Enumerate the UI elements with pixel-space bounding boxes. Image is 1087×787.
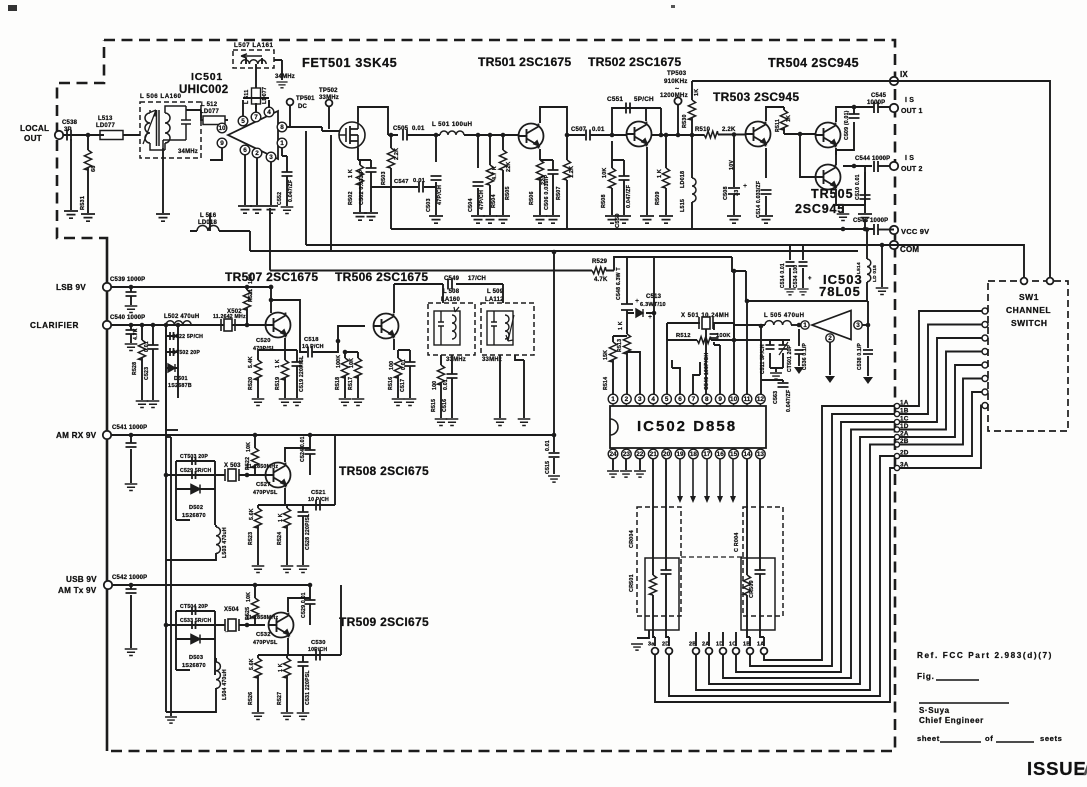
resistor R520 5.4K <box>254 360 261 380</box>
svg-text:C532: C532 <box>256 632 271 638</box>
capacitor C539 1000P <box>126 292 137 296</box>
wire C546 top <box>713 323 715 330</box>
terminal 2B <box>693 648 700 655</box>
op-amp IC501 triangle <box>228 111 278 159</box>
svg-text:C510 0.01: C510 0.01 <box>855 174 861 200</box>
wire C506 branch <box>540 160 553 215</box>
ground pin2 <box>250 206 264 213</box>
ground IC503 pin2 arrow <box>825 376 835 383</box>
svg-text:1K: 1K <box>694 89 700 96</box>
svg-text:33MHz: 33MHz <box>319 95 339 101</box>
ground C539 <box>125 306 138 312</box>
inductor L502 470uH <box>166 321 191 325</box>
svg-text:R504: R504 <box>491 194 497 208</box>
svg-text:CLARIFIER: CLARIFIER <box>30 321 79 330</box>
wire R522 leads <box>254 435 256 475</box>
resistor R530 1K <box>688 100 695 120</box>
svg-text:of: of <box>985 734 993 743</box>
wire pin20 down <box>665 459 667 507</box>
svg-text:17: 17 <box>703 451 711 458</box>
terminal 2D <box>666 648 673 655</box>
transformer L506 LA160 box <box>140 102 201 158</box>
transistor TR502 2SC1675 <box>627 122 652 147</box>
wire L514 top <box>866 230 868 260</box>
ground C508 <box>727 216 741 223</box>
ground R505 <box>496 216 510 223</box>
svg-text:4.7 K: 4.7 K <box>492 166 498 180</box>
wire R524 leads <box>286 505 288 565</box>
wire vertical bus x554 <box>553 252 555 435</box>
wire C529b leads <box>309 585 311 625</box>
transistor TR501 2SC1675 <box>519 124 544 149</box>
wire R530 leads <box>691 81 693 135</box>
svg-text:R519: R519 <box>275 377 281 390</box>
wire C536 leads <box>798 329 800 366</box>
trimmer CT503 20P <box>192 457 196 465</box>
ground R504 <box>483 216 497 223</box>
svg-text:C519 220P/SL: C519 220P/SL <box>299 355 305 392</box>
terminal VCC 9V <box>890 226 898 234</box>
svg-text:+: + <box>635 298 639 305</box>
ground C550 <box>617 216 631 223</box>
svg-text:0.01: 0.01 <box>545 440 551 451</box>
terminal LSB 9V <box>103 283 111 291</box>
ground TR502 emitter <box>640 216 654 223</box>
junction <box>245 285 250 290</box>
relay CR501 box <box>637 507 681 616</box>
svg-text:C544 1000P: C544 1000P <box>855 156 890 162</box>
wire CT503 frame <box>166 461 219 489</box>
wire pin 22 stub <box>639 448 641 449</box>
crystal X501 10.24MH <box>699 317 713 329</box>
transistor TR506 2SC1675 <box>374 314 399 339</box>
svg-text:C506 0.039/P: C506 0.039/P <box>544 174 550 210</box>
svg-text:LD018: LD018 <box>680 171 686 188</box>
capacitor C510 0.01 <box>860 195 871 199</box>
wire join2 <box>166 436 171 438</box>
svg-text:LD077: LD077 <box>200 109 219 115</box>
inductor L501 100uH <box>440 131 464 135</box>
wire TR507 emitter network <box>258 338 297 398</box>
capacitor C515 0.01 <box>549 453 560 457</box>
wire R509 leads <box>665 135 667 215</box>
ground C538 <box>64 211 78 218</box>
wire COM rail from gate column <box>306 131 890 245</box>
svg-text:10V: 10V <box>729 160 735 170</box>
wire C505 to L501 <box>407 134 436 136</box>
junction <box>759 324 764 329</box>
svg-text:OUT 2: OUT 2 <box>901 166 923 173</box>
svg-text:C563: C563 <box>773 391 779 404</box>
resistor in CR501 <box>649 575 656 595</box>
ground COM <box>876 288 889 294</box>
CR501 inner box <box>645 558 679 630</box>
svg-text:C509 (0.01): C509 (0.01) <box>844 110 850 140</box>
svg-text:23: 23 <box>623 451 631 458</box>
switch contact 2A <box>982 362 988 368</box>
capacitor C538 0.1/P out <box>863 350 873 354</box>
svg-text:R509: R509 <box>655 191 661 205</box>
ground C516 <box>446 419 459 425</box>
IC502 pin 14 <box>742 449 752 459</box>
junction <box>164 473 169 478</box>
wires CR004 to terminals <box>747 630 764 646</box>
capacitor C505 0.01 <box>403 130 407 141</box>
inductor L509 LA112 box <box>481 303 534 355</box>
junction <box>129 285 134 290</box>
capacitor C541 1000P <box>126 443 137 447</box>
junction <box>269 285 274 290</box>
inductor L503 470uH <box>216 527 220 553</box>
wire pin 6 stub <box>679 404 681 406</box>
svg-text:3: 3 <box>638 396 642 403</box>
resistor R508 10K <box>608 168 615 188</box>
ground pin22 <box>634 471 646 477</box>
wire gate feed <box>322 127 339 131</box>
junction <box>866 323 871 328</box>
svg-text:15: 15 <box>730 451 738 458</box>
transistor TR505 2SC945 <box>816 165 841 190</box>
resistor R528 4.7K <box>138 340 145 360</box>
svg-text:9: 9 <box>718 396 722 403</box>
wire to C507 <box>567 134 585 136</box>
svg-text:C514 0.033/ZF: C514 0.033/ZF <box>756 181 762 218</box>
wire TR508 collector <box>285 448 310 462</box>
diode D501 1S2687B <box>168 364 175 372</box>
wire L512 to IC501 <box>225 119 228 121</box>
wire pin9 riser <box>714 342 720 394</box>
ground C514b <box>784 289 795 295</box>
svg-text:C521: C521 <box>311 490 326 496</box>
svg-text:7: 7 <box>692 396 696 403</box>
svg-text:10 P/CH: 10 P/CH <box>302 344 324 350</box>
wire TR505 emitter gnd <box>842 205 844 213</box>
svg-text:6: 6 <box>243 147 247 154</box>
junction <box>565 133 570 138</box>
inductor L507 LA161 box <box>233 50 274 68</box>
wire R518 leads <box>344 352 346 398</box>
svg-text:0.01: 0.01 <box>592 127 605 133</box>
wire pin 10 stub <box>733 404 735 406</box>
svg-text:0.01: 0.01 <box>443 379 449 390</box>
signature rule <box>919 702 1009 704</box>
wire C547 link <box>371 186 436 188</box>
svg-text:C504: C504 <box>468 198 474 212</box>
svg-text:C518: C518 <box>304 337 319 343</box>
svg-text:IC502 D858: IC502 D858 <box>637 418 737 435</box>
junction <box>488 133 493 138</box>
junction <box>690 133 695 138</box>
resistor R515 100 <box>437 365 444 385</box>
wire TR504 collector to out <box>836 107 872 122</box>
capacitor C521 10P/CH <box>316 500 320 511</box>
svg-text:14: 14 <box>743 451 751 458</box>
resistor R503 2.2K <box>387 148 394 168</box>
crystal X502 11.2642MHz <box>221 319 235 331</box>
svg-text:L502 470uH: L502 470uH <box>164 314 199 320</box>
wire pin3 to out column <box>862 324 868 326</box>
svg-text:TR508 2SCI675: TR508 2SCI675 <box>339 464 429 478</box>
wire pin9 <box>210 148 222 160</box>
svg-text:C529 0.01: C529 0.01 <box>301 592 307 618</box>
wire pin 5 stub <box>666 404 668 406</box>
resistor R511 1K <box>780 110 787 130</box>
wire CT501 cluster <box>770 340 783 372</box>
svg-text:C547: C547 <box>394 179 409 185</box>
svg-text:12: 12 <box>757 396 765 403</box>
inductor L507 winding <box>241 60 266 64</box>
svg-text:TP501: TP501 <box>296 96 315 102</box>
capacitor C540 1000P <box>126 330 137 334</box>
wire COM to switch <box>894 245 1024 281</box>
IC502 pin 16 <box>715 449 725 459</box>
capacitor C508 33/10V electrolytic <box>728 188 740 194</box>
wire C528 leads <box>302 505 304 565</box>
svg-text:24: 24 <box>609 451 617 458</box>
scan speck top-left <box>8 5 17 11</box>
wire C510 branch <box>864 172 866 213</box>
pin 4 <box>264 107 274 117</box>
svg-text:6: 6 <box>678 396 682 403</box>
svg-text:4.7K: 4.7K <box>594 277 608 283</box>
wire L513 to L506 <box>123 134 140 136</box>
wire R515 leads <box>440 365 442 418</box>
wire loop to L505 <box>734 324 765 326</box>
ground C506 <box>546 216 560 223</box>
svg-text:1: 1 <box>803 322 807 329</box>
wire L503 leads <box>166 525 216 560</box>
switch contact 1A <box>982 308 988 314</box>
node 1B at border <box>894 411 899 416</box>
capacitor C507 0.01 <box>586 130 590 141</box>
svg-text:C514 0.01: C514 0.01 <box>780 263 786 288</box>
wires CR501 to terminals <box>653 630 669 646</box>
resistor R513 1K <box>623 334 630 354</box>
wire IX line left <box>692 80 890 82</box>
terminal CLARIFIER <box>103 321 111 329</box>
ground CR501 <box>631 644 643 650</box>
svg-text:10K: 10K <box>246 442 252 452</box>
wire C509 and TR505 collector <box>836 107 854 165</box>
capacitor C550 0.047/ZF <box>619 176 630 180</box>
regulator IC503 triangle <box>812 311 851 340</box>
IC502 pin 6 <box>675 394 685 404</box>
ground R531 <box>81 214 95 221</box>
wire net 1C <box>736 338 982 672</box>
wire X502 to TR507 base <box>235 324 265 326</box>
wire L505 to IC503 <box>791 324 798 326</box>
svg-text:FET501 3SK45: FET501 3SK45 <box>302 55 397 70</box>
svg-text:1B: 1B <box>900 408 909 415</box>
svg-text:LD077: LD077 <box>96 123 115 129</box>
svg-text:1B: 1B <box>743 642 750 648</box>
sheet rule 2 <box>996 741 1034 743</box>
junction <box>610 133 615 138</box>
ground R528 <box>136 401 149 407</box>
inductor L514 LD018 <box>867 259 871 282</box>
svg-text:1 K: 1 K <box>275 359 281 368</box>
svg-text:SW1: SW1 <box>1019 292 1039 302</box>
ground C504 <box>471 216 485 223</box>
svg-text:ISSUE: ISSUE <box>1027 758 1087 779</box>
pin 9 <box>217 138 227 148</box>
svg-text:C538: C538 <box>62 120 78 126</box>
svg-text:SWITCH: SWITCH <box>1011 318 1048 328</box>
wire C550 branch <box>612 160 624 215</box>
IC502 pin 8 <box>702 394 712 404</box>
wire pin3 riser <box>627 352 640 394</box>
wire C521 out riser <box>320 435 335 505</box>
junction <box>269 285 274 290</box>
svg-text:1200MHz: 1200MHz <box>660 92 688 99</box>
wire pin 3 stub <box>639 404 641 406</box>
svg-text:34MHz: 34MHz <box>275 74 295 80</box>
svg-text:TR502 2SC1675: TR502 2SC1675 <box>588 55 681 69</box>
ground L506 <box>156 214 170 221</box>
svg-text:1K: 1K <box>786 115 792 122</box>
svg-text:Chief Engineer: Chief Engineer <box>919 716 984 725</box>
wire C545 to OUT1 <box>872 106 890 108</box>
wire C538 gnd lead <box>70 139 72 210</box>
svg-text:USB 9V: USB 9V <box>66 575 97 584</box>
svg-text:L 509: L 509 <box>487 289 504 295</box>
wire L516 leads <box>190 213 250 231</box>
junction <box>253 433 258 438</box>
node 2D at border <box>894 453 899 458</box>
ground C536 arrow <box>794 367 804 374</box>
junction <box>664 133 669 138</box>
svg-text:R506: R506 <box>529 191 535 205</box>
wire pin15 arrow <box>732 459 734 497</box>
wire L502 to X502 <box>191 324 219 326</box>
svg-text:1A: 1A <box>900 400 909 407</box>
svg-text:DC: DC <box>298 104 308 110</box>
junction <box>253 583 258 588</box>
svg-text:LSB 9V: LSB 9V <box>56 283 86 292</box>
wire pin 12 stub <box>759 404 761 406</box>
L508 inner winding <box>434 307 460 345</box>
wire pin17 arrow <box>706 459 708 497</box>
resistor R505 22K <box>499 150 506 170</box>
svg-text:1000P: 1000P <box>867 100 885 106</box>
svg-text:C523: C523 <box>144 367 150 380</box>
junction <box>389 133 394 138</box>
svg-text:2: 2 <box>625 396 629 403</box>
wire C507 to TR502 <box>590 134 626 136</box>
wire to TR504 base <box>784 133 815 135</box>
svg-text:1: 1 <box>611 396 615 403</box>
IC502 pin 4 <box>648 394 658 404</box>
wire R523 leads <box>257 505 259 548</box>
svg-text:1 K: 1 K <box>618 321 624 330</box>
junction <box>659 133 664 138</box>
svg-text:C507: C507 <box>571 127 587 133</box>
wire C543 to VCC term <box>878 229 890 231</box>
IC502 pin 19 <box>675 449 685 459</box>
terminal 1A <box>761 648 768 655</box>
svg-text:5.6K: 5.6K <box>249 508 255 520</box>
svg-text:R512: R512 <box>676 333 691 339</box>
svg-text:7: 7 <box>254 114 258 121</box>
capacitor C544 1000P <box>874 161 878 172</box>
svg-text:5P/CH: 5P/CH <box>634 96 654 103</box>
svg-text:C534 100: C534 100 <box>793 265 799 288</box>
IC502 pin 18 <box>689 449 699 459</box>
svg-text:I S: I S <box>905 155 914 162</box>
ground C517 <box>404 399 417 405</box>
svg-text:TR505: TR505 <box>811 187 854 201</box>
wire join <box>166 429 178 431</box>
svg-text:TR504 2SC945: TR504 2SC945 <box>768 56 859 70</box>
terminal IS OUT 1 <box>890 104 898 112</box>
svg-text:LD018: LD018 <box>198 220 217 226</box>
svg-text:C552: C552 <box>277 192 283 205</box>
wire R508 leads <box>611 141 613 215</box>
wires IC501 bottom pins <box>245 155 271 205</box>
wire R510 to TR503 <box>718 134 746 136</box>
svg-text:47P/CH: 47P/CH <box>479 190 485 210</box>
wire pin8 riser <box>705 323 707 394</box>
svg-text:16: 16 <box>717 451 725 458</box>
switch SW1 box <box>988 281 1068 431</box>
IC502 pin 2 <box>622 394 632 404</box>
terminal COM <box>890 241 898 249</box>
wire AM RX rail <box>111 434 554 436</box>
svg-text:A: A <box>1083 758 1087 779</box>
wire long vertical x171 <box>170 437 172 716</box>
resistor R519 1K <box>281 360 288 380</box>
trimmer CT504 20P <box>192 607 196 615</box>
ground R506 <box>533 216 547 223</box>
svg-text:910KHz: 910KHz <box>664 78 688 85</box>
wire IX to switch <box>894 81 1050 281</box>
wire net 2B <box>696 379 982 691</box>
wire C524 leads <box>309 435 311 475</box>
resistor R514 15K <box>609 342 616 362</box>
svg-text:1: 1 <box>280 140 284 147</box>
inductor L505 470uH <box>765 321 791 325</box>
svg-text:470P/SL: 470P/SL <box>253 346 276 352</box>
wire middle terminals up <box>696 632 736 646</box>
svg-text:0.047/ZF: 0.047/ZF <box>786 390 792 412</box>
junction <box>552 433 557 438</box>
svg-text:5: 5 <box>241 118 245 125</box>
trimmer arrow CT501 <box>779 342 788 355</box>
wire pin13 down <box>759 459 761 507</box>
wire TR505 emitter loop <box>836 166 865 205</box>
svg-text:3P: 3P <box>64 127 72 133</box>
dashed link between CR boxes <box>681 556 743 558</box>
wire R523 gnd lead <box>257 548 259 565</box>
wire CT504 frame <box>166 611 219 639</box>
wire pin 15 stub <box>733 448 735 449</box>
IC502 pin 23 <box>622 449 632 459</box>
svg-text:2B: 2B <box>900 438 909 445</box>
IC502 pin 10 <box>729 394 739 404</box>
wire L508 bottom leads <box>441 355 452 368</box>
capacitor C529 0.01 <box>305 600 316 604</box>
capacitor C517 0.01 <box>405 362 416 366</box>
resistor R525 10K <box>251 598 258 618</box>
svg-text:LA112: LA112 <box>485 297 504 303</box>
wire pin 19 stub <box>679 448 681 449</box>
ground R517 <box>352 399 365 405</box>
svg-text:18: 18 <box>690 451 698 458</box>
wire C538 to L513 <box>75 134 100 136</box>
svg-text:TP503: TP503 <box>667 70 687 77</box>
wire TR502 out <box>651 134 704 136</box>
wire R504 leads <box>489 135 491 215</box>
